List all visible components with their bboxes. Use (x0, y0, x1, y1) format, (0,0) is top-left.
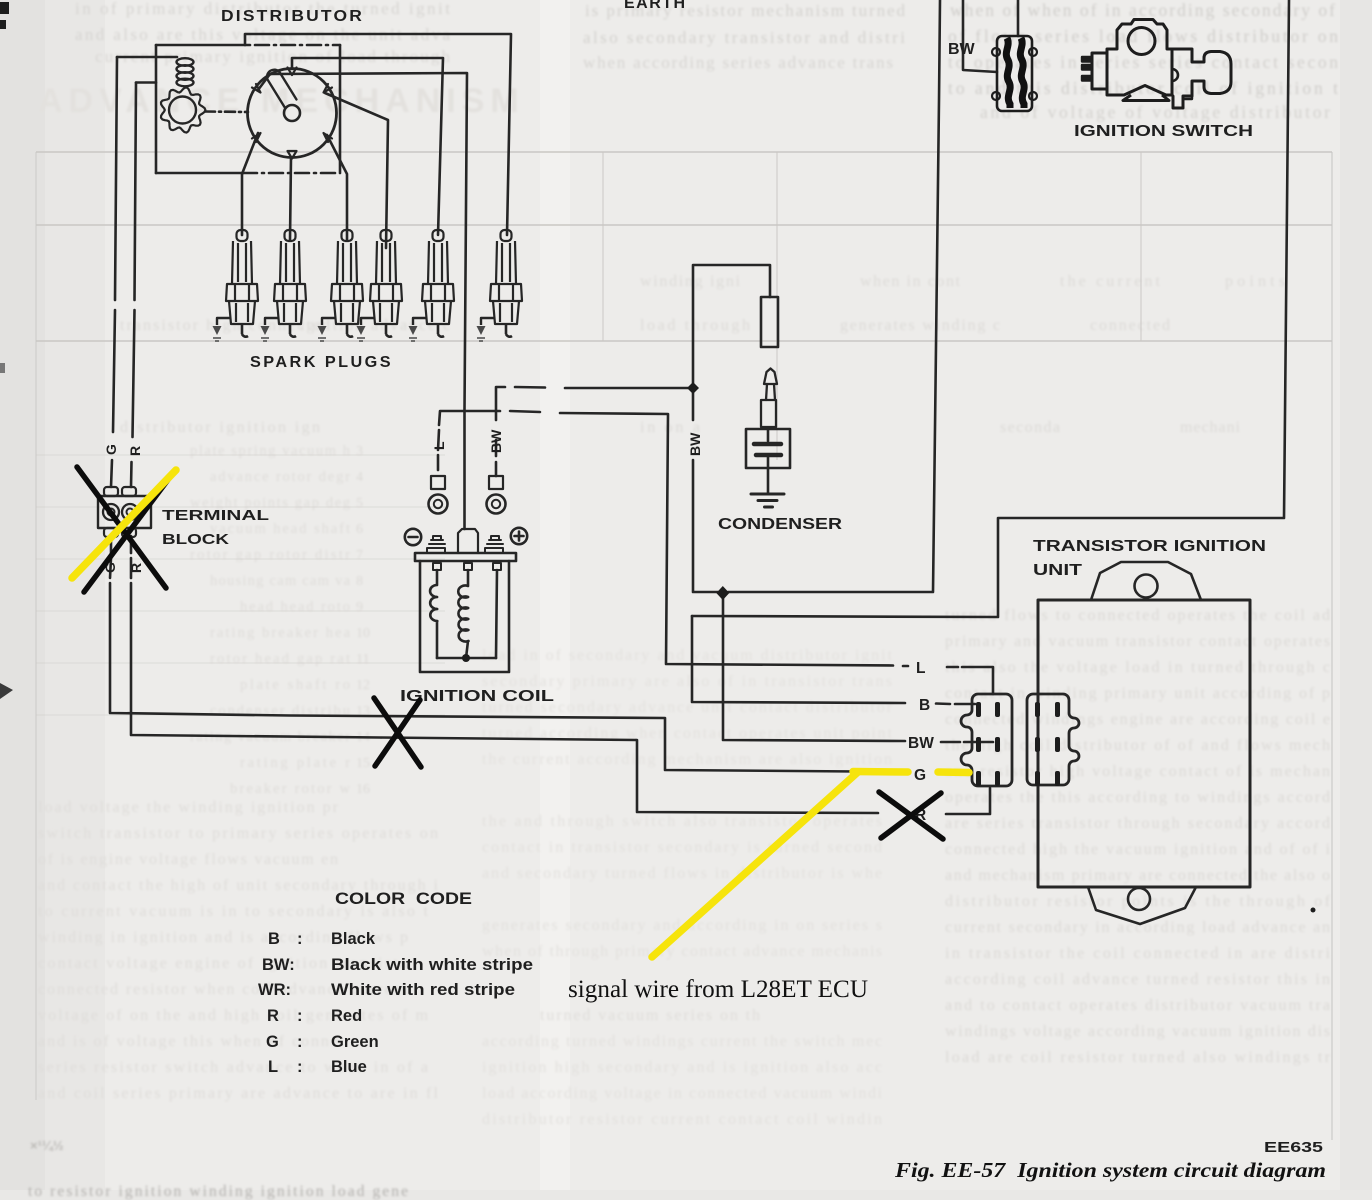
svg-text:DISTRIBUTOR: DISTRIBUTOR (221, 8, 364, 25)
svg-text:load in of secondary and vacuu: load in of secondary and vacuum distribu… (482, 647, 893, 664)
svg-text:5: 5 (356, 496, 363, 511)
svg-text:Green: Green (331, 1033, 379, 1051)
svg-text:this also the voltage load in: this also the voltage load in turned thr… (945, 659, 1330, 676)
svg-text:rating breaker hea: rating breaker hea (210, 625, 351, 641)
svg-text:plate spring vacuum h: plate spring vacuum h (190, 443, 351, 459)
svg-text:in transistor the coil connect: in transistor the coil connected in are … (945, 945, 1331, 962)
svg-text:G: G (914, 767, 926, 784)
svg-text:when of through primary contac: when of through primary contact advance … (482, 943, 882, 960)
svg-text:IGNITION COIL: IGNITION COIL (400, 688, 554, 705)
svg-text:distributor ignition ign: distributor ignition ign (120, 419, 320, 436)
svg-text:advance rotor degr: advance rotor degr (210, 469, 350, 485)
svg-text:WR:: WR: (258, 981, 291, 999)
svg-text:and mechanism primary are conn: and mechanism primary are connected the … (945, 867, 1330, 884)
svg-text:R: R (127, 446, 143, 456)
svg-text:rotor gap rotor distr: rotor gap rotor distr (190, 547, 350, 563)
svg-text:EARTH: EARTH (624, 0, 687, 12)
svg-text:B: B (268, 930, 280, 948)
svg-text:Red: Red (331, 1007, 362, 1025)
svg-text:IGNITION SWITCH: IGNITION SWITCH (1074, 123, 1253, 140)
svg-text:4: 4 (356, 470, 363, 485)
svg-text:R: R (128, 563, 144, 573)
svg-text:G: G (103, 444, 119, 455)
svg-text:housing cam cam va: housing cam cam va (210, 573, 351, 589)
svg-text:TERMINAL: TERMINAL (162, 507, 269, 524)
svg-text::: : (297, 1033, 303, 1051)
svg-text:also secondary transistor and: also secondary transistor and distri (583, 28, 905, 47)
svg-text:Black with white stripe: Black with white stripe (331, 956, 533, 974)
svg-text:winding igni: winding igni (640, 273, 741, 290)
svg-text:load voltage the winding ignit: load voltage the winding ignition pr (38, 799, 339, 816)
svg-text:7: 7 (356, 548, 363, 563)
svg-text:3: 3 (356, 444, 363, 459)
svg-text:when of when of in according s: when of when of in according secondary o… (950, 0, 1335, 20)
svg-text:the current according mechanis: the current according mechanism are also… (482, 751, 892, 768)
svg-text:EE635: EE635 (1264, 1139, 1323, 1156)
svg-text:mechani: mechani (1180, 419, 1241, 436)
svg-text:CONDENSER: CONDENSER (718, 516, 843, 533)
svg-text:R: R (267, 1007, 279, 1025)
svg-text:turned vacuum series on th: turned vacuum series on th (540, 1007, 760, 1024)
svg-text:6: 6 (356, 522, 363, 537)
svg-text:15: 15 (356, 756, 370, 771)
svg-text:UNIT: UNIT (1033, 562, 1083, 579)
svg-text:Black: Black (331, 930, 376, 948)
svg-text:L: L (916, 660, 925, 677)
svg-text:TRANSISTOR IGNITION: TRANSISTOR IGNITION (1033, 538, 1266, 555)
svg-text:COLOR CODE: COLOR CODE (335, 890, 472, 908)
svg-text:BW: BW (948, 41, 976, 58)
svg-text:head head roto: head head roto (240, 599, 350, 615)
svg-text:BW: BW (488, 429, 504, 453)
svg-text:White with red stripe: White with red stripe (331, 981, 515, 999)
svg-text:seconda: seconda (1000, 419, 1060, 436)
svg-text:L: L (268, 1058, 278, 1076)
svg-text:11: 11 (356, 652, 369, 667)
svg-text:10: 10 (356, 626, 370, 641)
svg-text:signal wire from L28ET ECU: signal wire from L28ET ECU (568, 976, 868, 1003)
svg-text:according coil advance turned: according coil advance turned resistor t… (945, 971, 1330, 988)
svg-text::: : (297, 1058, 303, 1076)
svg-text:8: 8 (356, 574, 363, 589)
svg-text:windings voltage according vac: windings voltage according vacuum igniti… (945, 1023, 1330, 1040)
svg-text:current secondary in according: current secondary in according load adva… (945, 919, 1330, 936)
svg-text:G: G (266, 1033, 279, 1051)
svg-text:and resistor high voltage cont: and resistor high voltage contact of is … (945, 763, 1330, 780)
svg-text:when according series advance: when according series advance trans (583, 53, 893, 72)
svg-text:12: 12 (356, 678, 370, 693)
svg-text:of is engine voltage flows vac: of is engine voltage flows vacuum en (38, 851, 338, 868)
svg-text:SPARK PLUGS: SPARK PLUGS (250, 354, 393, 371)
svg-text:when in cont: when in cont (860, 273, 961, 290)
svg-text:connected high the vacuum igni: connected high the vacuum ignition and o… (945, 841, 1331, 858)
svg-text:operates the this according to: operates the this according to windings … (945, 789, 1330, 806)
svg-text:the current: the current (1060, 273, 1161, 290)
svg-text:BW: BW (908, 735, 934, 752)
svg-text:distributor resistor current c: distributor resistor current contact coi… (482, 1111, 882, 1128)
svg-text:B: B (919, 697, 930, 714)
svg-text:according turned windings curr: according turned windings current the sw… (482, 1033, 882, 1050)
svg-text:ignition high secondary and is: ignition high secondary and is ignition … (482, 1059, 882, 1076)
svg-text::: : (297, 1007, 303, 1025)
svg-text:16: 16 (356, 782, 370, 797)
svg-text:the high coil distributor of o: the high coil distributor of of and flow… (945, 737, 1330, 754)
svg-text:Blue: Blue (331, 1058, 367, 1076)
svg-text:L: L (431, 441, 447, 450)
svg-text:connected: connected (1090, 317, 1170, 334)
svg-text:BW:: BW: (262, 956, 295, 974)
svg-text:to resistor ignition winding i: to resistor ignition winding ignition lo… (28, 1183, 408, 1200)
svg-text:×¹¼½: ×¹¼½ (30, 1138, 64, 1153)
svg-text::: : (297, 930, 303, 948)
svg-text:BLOCK: BLOCK (162, 531, 229, 548)
svg-text:contact in transistor secondar: contact in transistor secondary is turne… (482, 839, 882, 856)
svg-text:Fig. EE-57 Ignition system ci: Fig. EE-57 Ignition system circuit diagr… (894, 1158, 1326, 1182)
svg-text:are series transistor through: are series transistor through secondary … (945, 815, 1330, 832)
svg-text:series resistor switch advance: series resistor switch advance to when i… (38, 1059, 428, 1076)
svg-text:9: 9 (356, 600, 363, 615)
svg-text:BW: BW (687, 432, 703, 456)
